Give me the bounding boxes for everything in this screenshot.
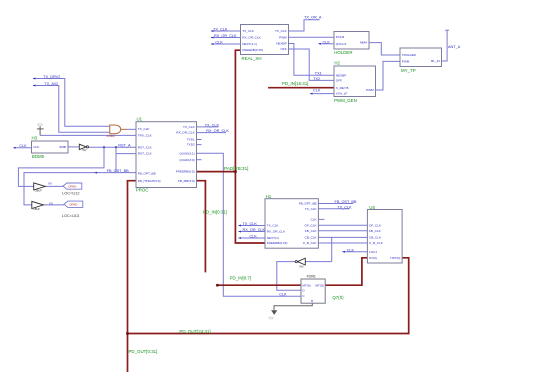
svg-text:LOC1: LOC1	[369, 250, 377, 254]
svg-text:TX2: TX2	[313, 77, 320, 81]
svg-text:RX_OR_CLK: RX_OR_CLK	[243, 228, 266, 232]
svg-text:TX_AV2: TX_AV2	[44, 82, 58, 86]
svg-text:RX_OR_CLK: RX_OR_CLK	[206, 129, 229, 133]
svg-text:PXLM: PXLM	[336, 35, 345, 39]
svg-text:RST_CLK: RST_CLK	[138, 152, 153, 156]
svg-text:TX_CLK: TX_CLK	[205, 123, 220, 127]
svg-text:MMA: MMA	[360, 41, 368, 45]
svg-text:FREERB(0:5): FREERB(0:5)	[176, 170, 195, 174]
svg-text:TX_OR_A: TX_OR_A	[304, 16, 322, 20]
svg-text:BL_IN: BL_IN	[431, 59, 440, 63]
svg-text:CLK: CLK	[33, 145, 40, 149]
svg-text:CLK: CLK	[323, 40, 331, 44]
svg-text:ANT_A: ANT_A	[448, 45, 461, 49]
svg-text:AND2: AND2	[107, 134, 116, 138]
svg-text:PD_IN[16:31]: PD_IN[16:31]	[282, 81, 308, 86]
svg-text:CLK: CLK	[311, 218, 318, 222]
svg-text:CLK: CLK	[215, 41, 223, 45]
svg-text:ST(0): ST(0)	[369, 256, 377, 260]
svg-text:XX: XX	[48, 182, 52, 186]
svg-text:OPAD: OPAD	[68, 185, 77, 189]
svg-text:LOC=U13: LOC=U13	[62, 213, 79, 218]
svg-text:TX_CLK: TX_CLK	[242, 29, 255, 33]
svg-text:FB_HTECH(3:0): FB_HTECH(3:0)	[138, 179, 161, 183]
svg-text:HST(0): HST(0)	[390, 256, 400, 260]
svg-text:X_REYI5: X_REYI5	[336, 86, 349, 90]
svg-text:MY_TP: MY_TP	[401, 68, 416, 73]
svg-text:NEXBP: NEXBP	[336, 73, 347, 77]
svg-text:U5: U5	[369, 205, 375, 210]
svg-text:NEXT(1): NEXT(1)	[267, 236, 279, 240]
svg-text:OF_CLK: OF_CLK	[305, 223, 318, 227]
svg-text:CLK: CLK	[249, 235, 257, 239]
svg-text:FB_OST_BB: FB_OST_BB	[335, 200, 357, 204]
svg-text:OFF: OFF	[336, 79, 342, 83]
svg-text:XXA_LF: XXA_LF	[336, 92, 348, 96]
svg-text:TX_CLK: TX_CLK	[337, 205, 352, 209]
svg-text:PD_IN[0:31]: PD_IN[0:31]	[203, 210, 227, 215]
svg-text:TX_CLK: TX_CLK	[275, 29, 288, 33]
svg-text:RX_OR_CLK: RX_OR_CLK	[176, 131, 195, 135]
svg-text:RX_OR_CLK: RX_OR_CLK	[267, 230, 286, 234]
svg-text:PD_OUT[0:31]: PD_OUT[0:31]	[129, 349, 158, 354]
svg-text:RX_OR_CLK: RX_OR_CLK	[242, 35, 261, 39]
svg-text:SMB: SMB	[59, 145, 66, 149]
svg-text:FDRE: FDRE	[307, 275, 317, 279]
svg-text:TX_CLK: TX_CLK	[243, 222, 258, 226]
svg-text:PAD[RB:31]: PAD[RB:31]	[224, 166, 248, 171]
svg-text:FREERB(0:15): FREERB(0:15)	[242, 48, 263, 52]
svg-text:PWM_GEN: PWM_GEN	[334, 98, 357, 103]
svg-text:BDM5: BDM5	[32, 154, 45, 159]
svg-text:QXCLS: QXCLS	[336, 42, 347, 46]
svg-text:TXD1: TXD1	[187, 138, 195, 142]
svg-text:U1: U1	[137, 117, 143, 122]
svg-text:OBUF: OBUF	[33, 207, 41, 211]
svg-text:TX_CLK: TX_CLK	[267, 224, 280, 228]
svg-text:OPAD: OPAD	[69, 203, 78, 207]
svg-text:TX1: TX1	[315, 72, 322, 76]
svg-text:FB_OPT_BB: FB_OPT_BB	[138, 171, 156, 175]
svg-text:FB_OPT_BB: FB_OPT_BB	[299, 202, 317, 206]
svg-text:FREERB(0:15): FREERB(0:15)	[267, 241, 288, 245]
svg-text:RX_OR_CLK: RX_OR_CLK	[214, 34, 237, 38]
svg-text:TX_CLK: TX_CLK	[183, 125, 196, 129]
svg-text:TXD2: TXD2	[187, 143, 195, 147]
svg-text:INV: INV	[82, 148, 87, 152]
svg-text:PD_IN[0:7]: PD_IN[0:7]	[230, 276, 251, 281]
svg-text:REAL_XH: REAL_XH	[242, 56, 262, 61]
svg-text:CLK: CLK	[347, 248, 355, 252]
svg-text:CB_CLK: CB_CLK	[369, 236, 382, 240]
svg-text:PWM: PWM	[366, 88, 374, 92]
svg-text:XX: XX	[49, 202, 53, 206]
svg-text:TX_CLK: TX_CLK	[305, 207, 318, 211]
svg-text:PWM: PWM	[279, 35, 287, 39]
svg-text:C_B_CLK: C_B_CLK	[369, 241, 384, 245]
svg-text:TRX_CLK: TRX_CLK	[138, 133, 153, 137]
svg-text:C_B_CLK: C_B_CLK	[303, 241, 318, 245]
svg-text:H1: H1	[266, 194, 272, 199]
svg-text:H3: H3	[32, 136, 38, 141]
svg-text:OFF: OFF	[281, 47, 287, 51]
svg-text:CLK: CLK	[19, 144, 27, 148]
svg-text:INV: INV	[299, 265, 304, 269]
svg-text:H2: H2	[334, 61, 340, 66]
svg-text:Q7(0): Q7(0)	[332, 295, 344, 300]
svg-text:PD_OUT[24:31]: PD_OUT[24:31]	[179, 329, 210, 334]
svg-text:RST_CLK: RST_CLK	[138, 145, 153, 149]
svg-text:FB_MB(3:0): FB_MB(3:0)	[178, 179, 195, 183]
svg-text:OF_CLK: OF_CLK	[369, 223, 382, 227]
svg-text:TX_CLK: TX_CLK	[138, 127, 151, 131]
svg-text:PWM: PWM	[402, 60, 410, 64]
svg-text:LOC=U12: LOC=U12	[62, 190, 79, 195]
svg-text:RST_A: RST_A	[118, 144, 131, 148]
svg-text:FB_OST_BB: FB_OST_BB	[107, 169, 129, 173]
svg-text:MT(0): MT(0)	[302, 283, 310, 287]
svg-text:NEXT(1:1): NEXT(1:1)	[242, 42, 257, 46]
svg-text:QUAD(3:1): QUAD(3:1)	[179, 151, 194, 155]
svg-text:CB_CLK: CB_CLK	[305, 236, 318, 240]
svg-text:TX_CLK: TX_CLK	[213, 28, 228, 32]
svg-text:HOLDER: HOLDER	[334, 50, 352, 55]
svg-text:OBUF: OBUF	[35, 188, 43, 192]
svg-text:CLK: CLK	[313, 88, 321, 92]
svg-text:NEXBP: NEXBP	[276, 42, 287, 46]
svg-text:FB_CLK: FB_CLK	[305, 229, 318, 233]
svg-text:TX_DRV2: TX_DRV2	[43, 75, 60, 79]
svg-text:FB_CLK: FB_CLK	[369, 229, 382, 233]
svg-text:QUAD(3:0): QUAD(3:0)	[179, 158, 194, 162]
svg-text:MT(0): MT(0)	[315, 283, 323, 287]
svg-text:PROC: PROC	[136, 187, 149, 192]
svg-text:TRIGGER: TRIGGER	[402, 53, 417, 57]
svg-text:CLK: CLK	[279, 293, 287, 297]
